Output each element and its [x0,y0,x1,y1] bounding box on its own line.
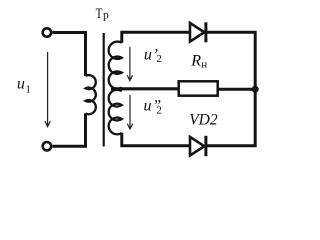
wire bottom-left [52,113,85,146]
label u'2 [144,47,162,66]
wire secondary top lead [122,32,191,43]
wire center tap [111,87,179,90]
terminal bottom-left [43,142,51,150]
svg-text:p: p [103,10,109,22]
transformer primary winding [86,75,96,114]
label Tp [96,6,109,22]
svg-text:R: R [190,52,201,69]
svg-text:T: T [96,6,103,22]
transformer core [103,33,105,147]
wire secondary bottom lead [122,133,191,146]
svg-text:н: н [201,59,207,71]
svg-text:2: 2 [156,104,162,116]
wire right rail [206,32,256,146]
svg-text:2: 2 [156,53,162,65]
diode VD1 [190,22,206,42]
transformer secondary lower half [109,90,122,135]
arrow u1 [45,52,50,127]
label Rн [190,52,207,70]
svg-text:1: 1 [25,83,31,95]
label u1 [17,75,31,95]
resistor Rн [179,81,218,95]
svg-text:u: u [17,75,25,92]
wire resistor to rail [219,88,256,91]
diode VD2 [190,136,206,156]
transformer secondary upper half [109,42,122,89]
svg-text:VD2: VD2 [189,112,218,129]
svg-text:u: u [144,97,152,114]
svg-text:u: u [144,47,152,64]
junction node [252,86,259,93]
arrow u''2 [127,95,132,129]
label u''2 [144,97,162,116]
arrow u'2 [127,47,132,81]
terminal top-left [43,28,51,36]
wire top-left [52,33,85,76]
